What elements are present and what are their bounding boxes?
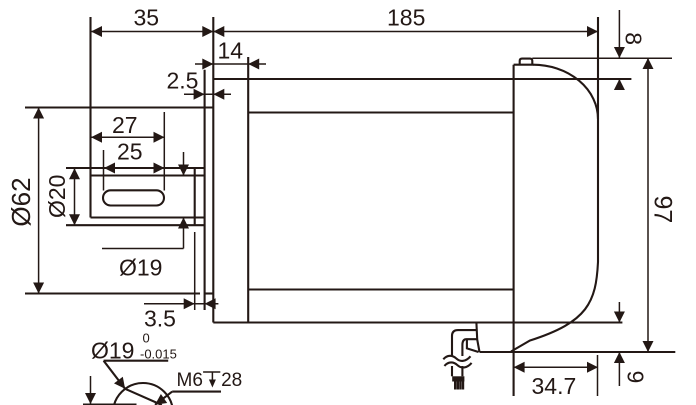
wire hub disc front face <box>194 168 196 225</box>
dimension 185 line <box>213 31 598 33</box>
wire flange bottom edge <box>25 292 200 294</box>
cable wire brush <box>455 382 463 390</box>
dimension 25 arrows on hub top extension line <box>104 163 115 174</box>
dimension O19 leader <box>102 248 184 250</box>
svg-text:Ø19: Ø19 <box>119 255 162 281</box>
svg-text:8: 8 <box>620 32 646 45</box>
svg-text:14: 14 <box>218 38 244 64</box>
dimension 27 line <box>91 136 165 138</box>
svg-text:34.7: 34.7 <box>532 373 577 399</box>
svg-text:185: 185 <box>387 5 425 31</box>
wire body bottom edge <box>213 321 622 323</box>
dimension 3.5 line <box>144 303 218 305</box>
svg-text:25: 25 <box>117 139 143 165</box>
keyway depth arrow <box>90 376 92 404</box>
wire hub disc bottom edge <box>66 224 205 226</box>
dimension 185 right extension line <box>597 17 599 60</box>
tolerance label underline <box>104 360 169 362</box>
wire flange top edge <box>25 106 213 108</box>
svg-text:6: 6 <box>622 371 648 384</box>
dimension 8 lower segment <box>618 79 620 90</box>
end cap right edge <box>597 17 599 262</box>
depth symbol <box>203 371 220 373</box>
end cap top corner arc <box>533 65 598 119</box>
wire flange front face <box>204 70 206 310</box>
M6 label underline <box>172 391 221 393</box>
keyway slot <box>103 190 164 205</box>
wire gearbox front face <box>247 57 249 323</box>
dimension 8 upper segment <box>618 10 620 58</box>
dimension 97 line <box>647 58 649 352</box>
dimension 34.7 line <box>514 366 598 368</box>
wire shaft top edge <box>91 174 205 176</box>
cable connector <box>452 376 464 381</box>
dimension 27 right extension line <box>163 112 165 191</box>
cable bracket left edge <box>476 323 479 353</box>
svg-text:35: 35 <box>134 5 160 31</box>
M6 leader <box>155 392 172 405</box>
cable break squiggle upper <box>443 356 470 361</box>
conduit elbow outer line <box>452 330 477 356</box>
cable lower stubs <box>451 366 453 376</box>
cable break squiggle lower <box>444 362 471 367</box>
svg-text:Ø20: Ø20 <box>44 175 70 218</box>
dimension 14 line <box>195 63 266 65</box>
dimension 35 line <box>91 31 214 33</box>
shaft end view circle <box>113 383 173 405</box>
conduit elbow inner line <box>462 339 476 356</box>
dimension 34.7 right extension <box>597 355 599 396</box>
wire flange back face <box>212 17 214 323</box>
cap bottom edge and extension line <box>480 351 676 353</box>
end cap top edge <box>514 64 534 66</box>
dimension 34.7 left extension <box>513 352 515 396</box>
dimension O20 line <box>74 168 76 225</box>
tolerance leader <box>104 361 126 389</box>
wire shaft bottom edge <box>91 216 205 218</box>
svg-text:27: 27 <box>112 112 138 138</box>
tolerance leader continuation through circle <box>125 389 162 405</box>
wire shaft end face <box>89 17 91 218</box>
wire body top edge <box>213 78 631 80</box>
svg-text:28: 28 <box>221 370 242 391</box>
dimension 6 lower segment <box>618 352 620 386</box>
dimension O62 line <box>38 108 40 294</box>
svg-text:-0.015: -0.015 <box>140 346 177 361</box>
dimension 6 upper segment <box>618 302 620 323</box>
end cap terminal tab <box>520 59 533 65</box>
keyway reference line <box>83 403 137 405</box>
svg-text:Ø62: Ø62 <box>6 177 36 226</box>
end cap left edge <box>513 65 515 396</box>
dimension 25 left extension line <box>103 150 105 191</box>
wire hub disc top edge <box>66 167 205 169</box>
svg-text:3.5: 3.5 <box>144 306 176 332</box>
cap top extension line <box>532 57 672 59</box>
svg-text:97: 97 <box>649 196 677 224</box>
dimension 2.5 line <box>184 93 231 95</box>
wire body inner top line <box>248 111 513 113</box>
conduit funnel step <box>467 339 479 352</box>
wire body inner bottom line <box>248 288 513 290</box>
svg-text:Ø19: Ø19 <box>91 337 134 363</box>
svg-text:2.5: 2.5 <box>167 68 199 94</box>
end cap bottom sweep curve <box>511 262 598 352</box>
dimension O19 arrows at shaft <box>183 152 185 176</box>
svg-text:0: 0 <box>143 331 150 346</box>
svg-text:M6: M6 <box>177 370 203 391</box>
